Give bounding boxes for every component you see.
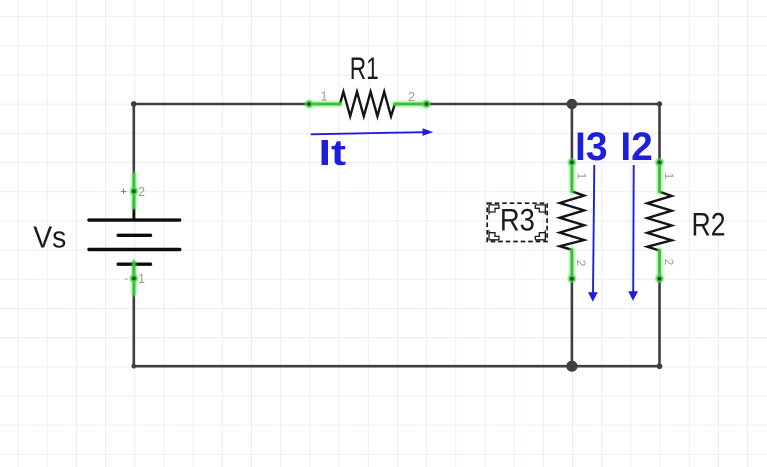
label R3 dashed selection box [487,203,547,241]
wire R3 branch top (junction down to R3 pin1) [571,104,574,162]
node: bottom-left corner dot [131,364,136,369]
wire top-left horizontal [134,103,309,106]
svg-text:I3: I3 [575,125,608,169]
svg-text:2: 2 [662,259,676,266]
battery bottom lead [132,264,135,278]
battery plate long top [89,218,180,221]
svg-text:-: - [124,271,128,285]
resistor R1 body (zigzag) [340,92,395,117]
current arrow I2 (blue, pointing down) [628,165,638,301]
svg-text:1: 1 [138,271,145,286]
wire bottom horizontal [134,365,660,368]
resistor R2 terminal green highlight pin2 (bottom) [655,251,664,284]
node: top-left corner dot [131,101,137,107]
svg-text:R3: R3 [500,201,535,237]
current arrow I3 (blue, pointing down) [588,165,598,302]
svg-text:Vs: Vs [33,220,66,254]
resistor R2 terminal green highlight pin1 (top) [655,158,664,192]
svg-text:+: + [120,186,126,198]
battery plate long bottom [89,248,180,251]
corner handle bottom-right [535,230,545,240]
corner handle bottom-left [489,230,499,240]
node: junction bottom (R3 to bottom wire) [566,361,577,372]
svg-text:R2: R2 [692,207,726,243]
svg-text:I2: I2 [620,125,653,169]
svg-text:R1: R1 [350,50,379,86]
wire left vertical (corner to battery + pin) [133,104,136,191]
node: top-right corner dot [657,101,662,106]
resistor R2 body (vertical zigzag) [647,192,671,251]
battery terminal green highlight + (pin 2) [129,175,138,208]
corner handle top-right [535,205,545,215]
resistor R3 body (vertical zigzag) [560,191,584,249]
resistor R3 terminal green highlight pin1 (top) [567,158,576,192]
svg-text:2: 2 [574,260,588,267]
current arrow It (blue, pointing right) [311,128,433,136]
battery Vs symbol [89,191,180,278]
svg-text:1: 1 [662,173,676,180]
svg-text:1: 1 [575,173,589,180]
corner handle top-left [489,205,499,215]
battery top lead [132,191,135,218]
node: bottom-right corner dot [657,363,663,369]
svg-text:It: It [319,132,347,173]
node: junction top (wire to R3) [567,99,578,110]
battery plate short 1 [118,234,150,237]
wire left vertical (battery - pin to bottom corner) [133,278,136,366]
wire R3 branch bottom (R3 pin2 down to bottom junction) [571,279,574,367]
resistor R1 terminal green highlight pin2 [395,99,431,108]
wire top-right horizontal (R1 pin2 to R2 corner) [427,103,660,106]
svg-text:2: 2 [138,184,145,199]
wire: top wire left segment (corner to R1 pin1) [134,104,660,366]
svg-text:1: 1 [320,89,327,104]
battery plate short 2 [118,263,150,266]
resistor R1 terminal green highlight pin1 [304,99,340,108]
wire R2 branch top (top-right corner down to R2 pin1) [658,104,661,162]
battery terminal green highlight - (pin 1) [129,262,138,294]
svg-text:2: 2 [408,89,415,104]
wire R2 branch bottom (R2 pin2 down to bottom-right corner) [658,279,661,367]
resistor R3 terminal green highlight pin2 (bottom) [567,250,576,284]
